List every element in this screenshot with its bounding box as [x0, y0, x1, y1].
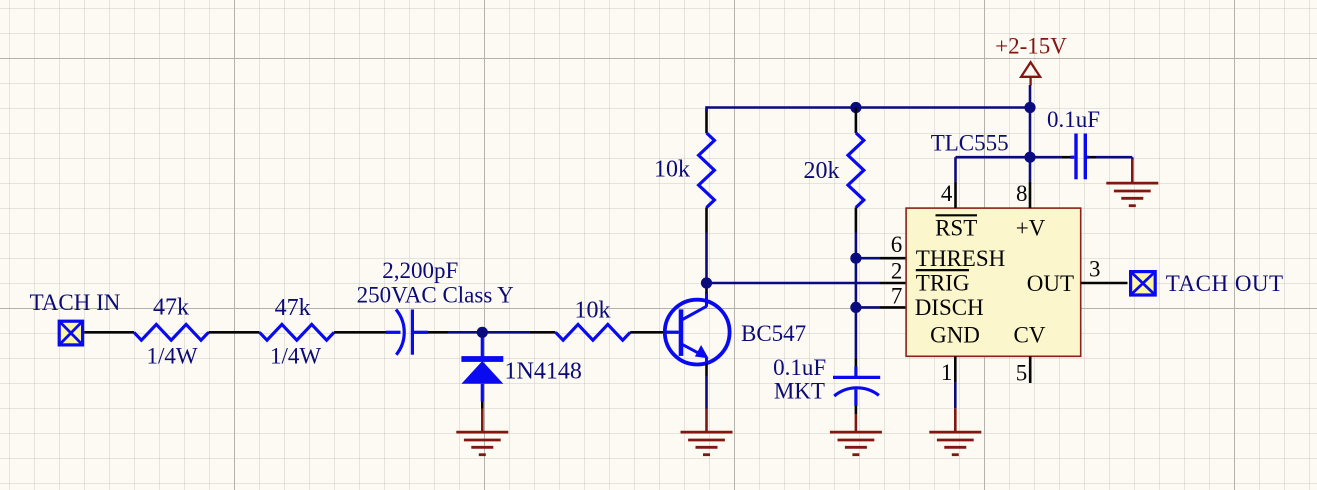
ground GND3 (pin1)	[954, 408, 957, 432]
svg-text:20k: 20k	[804, 158, 840, 184]
wire C1 to node A	[428, 331, 448, 334]
resistor R5 20k	[848, 133, 864, 208]
wire top rail	[707, 106, 1031, 109]
wire pin4 to node F	[954, 157, 957, 181]
wire R5 top pin	[855, 108, 858, 134]
wire node D to pin6 THRESH	[856, 257, 880, 260]
pin 1 GND stub	[954, 356, 957, 382]
IC U1 TLC555 body	[906, 208, 1081, 356]
wire TACH IN to R1	[84, 331, 134, 334]
pin 5 CV stub	[1029, 356, 1032, 383]
port TACH OUT	[1131, 272, 1156, 295]
ground GND4 (C2)	[855, 414, 858, 432]
svg-text:RST: RST	[935, 216, 977, 241]
ground GND2 (emitter)	[705, 409, 708, 433]
svg-text:GND: GND	[930, 323, 980, 348]
svg-text:1: 1	[941, 360, 953, 385]
svg-text:THRESH: THRESH	[916, 246, 1005, 271]
svg-text:TLC555: TLC555	[931, 131, 1009, 156]
junction node E (DISCH)	[850, 302, 861, 313]
wire pin1 to ground	[954, 383, 957, 409]
port TACH IN	[59, 321, 82, 345]
wire R4 top pin	[705, 109, 708, 133]
svg-text:47k: 47k	[275, 295, 311, 321]
junction node F	[1024, 152, 1035, 163]
wire Q1 collector pin	[705, 289, 708, 294]
svg-text:0.1uF: 0.1uF	[773, 355, 826, 380]
resistor R2 47k	[260, 324, 335, 340]
wire power drop	[1029, 85, 1032, 157]
resistor R3 10k	[556, 324, 631, 340]
wire R5 bottom pin	[855, 207, 858, 232]
wire pin8 to node F	[1029, 157, 1032, 181]
junction node B	[701, 277, 712, 288]
wire R4 bottom pin	[705, 207, 708, 232]
svg-text:2: 2	[891, 258, 903, 283]
wire node B to pin2 TRIG	[707, 282, 881, 285]
svg-text:3: 3	[1089, 257, 1101, 282]
svg-text:47k: 47k	[153, 295, 189, 321]
svg-text:7: 7	[891, 283, 903, 308]
svg-text:6: 6	[891, 232, 903, 257]
capacitor C1 2,200pF	[386, 331, 401, 334]
junction node C (rail/R5)	[850, 102, 861, 113]
svg-text:1/4W: 1/4W	[270, 344, 321, 369]
diode D1 1N4148	[481, 332, 484, 356]
svg-text:0.1uF: 0.1uF	[1047, 107, 1100, 132]
junction node G (rail/power)	[1024, 102, 1035, 113]
resistor R4 10k	[699, 133, 715, 208]
ground GND1 (diode)	[481, 409, 484, 433]
wire node E to pin7 DISCH	[856, 306, 880, 309]
pin 3 OUT wire	[1081, 282, 1128, 285]
resistor R1 47k	[134, 324, 209, 340]
svg-text:MKT: MKT	[774, 378, 825, 403]
capacitor C2 0.1uF MKT	[854, 367, 857, 378]
wire node E to C2	[855, 307, 858, 358]
capacitor C3 0.1uF and wires	[1030, 156, 1062, 159]
wire node D to node E	[855, 258, 858, 307]
svg-text:+V: +V	[1016, 215, 1046, 240]
svg-text:1/4W: 1/4W	[146, 344, 197, 369]
ground GND5 (C3)	[1131, 159, 1134, 183]
svg-text:10k: 10k	[575, 298, 611, 324]
wire R2 to C1	[334, 331, 388, 334]
svg-text:5: 5	[1016, 361, 1028, 386]
wire R1 to R2	[209, 331, 260, 334]
svg-text:CV: CV	[1014, 322, 1046, 347]
svg-text:DISCH: DISCH	[915, 295, 984, 320]
svg-text:10k: 10k	[654, 156, 690, 182]
junction node D (THRESH)	[850, 253, 861, 264]
power symbol +2-15V	[1021, 62, 1040, 77]
junction node A	[477, 327, 488, 338]
wire R3 to Q1 base	[630, 331, 679, 334]
svg-text:TACH IN: TACH IN	[30, 290, 121, 315]
svg-text:TACH OUT: TACH OUT	[1166, 271, 1284, 296]
svg-text:+2-15V: +2-15V	[995, 34, 1067, 59]
pin 8 +V stub	[1029, 181, 1032, 208]
svg-text:250VAC Class Y: 250VAC Class Y	[357, 282, 515, 307]
wire Q1 emitter to ground	[705, 364, 708, 377]
svg-text:TRIG: TRIG	[916, 271, 970, 296]
wire node A to R3	[530, 331, 556, 334]
svg-text:BC547: BC547	[741, 321, 806, 346]
transistor Q1 BC547	[665, 300, 730, 365]
svg-text:4: 4	[941, 181, 953, 206]
svg-text:OUT: OUT	[1027, 271, 1074, 296]
svg-text:2,200pF: 2,200pF	[382, 258, 458, 283]
pin 4 RST stub	[954, 181, 957, 208]
svg-text:1N4148: 1N4148	[505, 359, 582, 385]
svg-text:8: 8	[1016, 181, 1028, 206]
